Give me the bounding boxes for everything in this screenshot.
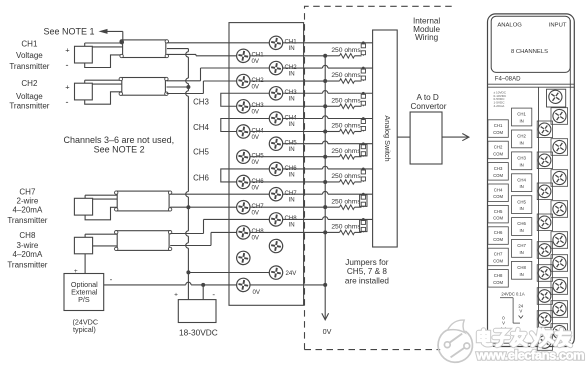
svg-text:IN: IN xyxy=(289,171,295,178)
label box: CH6 COM xyxy=(488,227,508,245)
svg-text:CH4: CH4 xyxy=(517,177,526,182)
svg-text:0V: 0V xyxy=(252,235,260,242)
svg-text:0V: 0V xyxy=(323,327,332,336)
watermark chinese characters 电子发烧友 (stylized) xyxy=(479,330,492,345)
junction: CH3 0V / 0V bus xyxy=(323,104,327,108)
junction: CH1 shield to NOTE1 wire xyxy=(120,40,124,44)
svg-text:IN: IN xyxy=(289,121,295,128)
resistor R5 250 ohms xyxy=(325,156,339,158)
module terminal screw L2 xyxy=(537,152,552,169)
wire: CH3 IN line to analog switch xyxy=(283,92,323,94)
transmitter CH7 (box) xyxy=(74,198,92,215)
wire: CH8 IN line to analog switch xyxy=(283,218,323,220)
svg-text:CH8: CH8 xyxy=(19,231,36,240)
svg-text:250 ohms: 250 ohms xyxy=(331,173,361,180)
wire: CH8 mid lead xyxy=(93,245,118,247)
svg-text:CH3: CH3 xyxy=(517,156,526,161)
svg-text:IN: IN xyxy=(519,119,523,124)
wire: battery + up to 24V line xyxy=(187,272,189,299)
terminal 24V xyxy=(268,265,284,281)
svg-text:CH6: CH6 xyxy=(494,230,503,235)
svg-text:4-20mA: 4-20mA xyxy=(494,104,506,108)
module terminal screw R6 xyxy=(551,255,568,272)
svg-text:V: V xyxy=(519,309,522,314)
label box: CH7 IN xyxy=(512,240,532,258)
wire: CH2 IN line to analog switch xyxy=(283,67,323,69)
shielded cable CH2 xyxy=(122,78,166,96)
label box: CH8 IN xyxy=(512,261,532,279)
wire: CH4 0V line to bus xyxy=(250,130,325,132)
junction: CH5 0V / 0V bus xyxy=(323,155,327,159)
svg-text:COM: COM xyxy=(493,280,503,285)
module terminal screw R1 xyxy=(551,108,568,125)
svg-text:COM: COM xyxy=(493,194,503,199)
label box: CH6 IN xyxy=(512,218,532,236)
wire: CH7 + lead (double line) xyxy=(84,195,86,198)
svg-text:IN: IN xyxy=(519,228,523,233)
svg-text:CH3: CH3 xyxy=(494,166,503,171)
wire: CH1 + lead (double line) xyxy=(84,43,86,46)
wire: CH2 0V to terminal xyxy=(167,93,204,95)
terminal CH6 0V xyxy=(236,174,252,190)
svg-text:2-wire: 2-wire xyxy=(17,197,39,206)
svg-text:IN: IN xyxy=(289,96,295,103)
svg-text:CH2: CH2 xyxy=(21,79,38,88)
svg-text:CH7: CH7 xyxy=(494,252,503,257)
svg-text:Channels 3–6 are not used,: Channels 3–6 are not used, xyxy=(64,135,175,145)
module 24V / 0V bracket xyxy=(500,297,513,299)
label box: CH4 COM xyxy=(488,184,508,202)
wire: CH1 0V to terminal xyxy=(167,53,196,55)
label box: CH7 COM xyxy=(488,248,508,266)
terminal 0V (supply) xyxy=(236,277,252,293)
resistor R4 250 ohms xyxy=(325,130,339,132)
svg-text:0V: 0V xyxy=(252,159,260,166)
svg-text:CH2: CH2 xyxy=(494,145,503,150)
wire: CH7 IN to terminal xyxy=(170,193,269,195)
junction: 0V supply / bus xyxy=(323,283,327,287)
svg-text:Transmitter: Transmitter xyxy=(7,261,47,270)
svg-text:8 CHANNELS: 8 CHANNELS xyxy=(511,49,548,55)
junction: jumper stub CH2 xyxy=(362,67,365,70)
wire: CH7 0V line to bus xyxy=(250,206,325,208)
wire: CH6 0V line to bus xyxy=(250,181,325,183)
svg-text:IN: IN xyxy=(519,206,523,211)
svg-text:Transmitter: Transmitter xyxy=(9,62,49,71)
svg-text:CH1: CH1 xyxy=(21,40,38,49)
wire: CH1 IN line to analog switch xyxy=(283,42,373,44)
label box: CH3 COM xyxy=(488,163,508,181)
svg-text:CH1: CH1 xyxy=(494,123,503,128)
resistor R7 250 ohms xyxy=(325,206,339,208)
svg-text:typical): typical) xyxy=(73,325,96,334)
module terminal screw L4 xyxy=(537,214,552,231)
svg-text:CH4: CH4 xyxy=(494,187,503,192)
wire: CH5 0V line to bus xyxy=(250,156,325,158)
battery 18-30VDC xyxy=(178,300,216,323)
svg-text:4–20mA: 4–20mA xyxy=(13,205,43,214)
jumper posts CH4 xyxy=(361,120,365,124)
wire: CH2 - lead staircase xyxy=(85,92,122,104)
module header box xyxy=(491,16,570,72)
svg-text:See NOTE 2: See NOTE 2 xyxy=(94,145,145,155)
terminal CH3 0V xyxy=(236,98,252,114)
junction: CH7 0V / 0V bus xyxy=(323,205,327,209)
wire: NOTE 1 arrow to CH1 cable shield xyxy=(99,29,108,34)
A to D convertor U2 (box) xyxy=(410,112,442,164)
wire: CH8 + lead xyxy=(84,234,86,237)
jumper posts CH6 xyxy=(361,170,365,174)
module face F4-08AD outline xyxy=(488,14,575,347)
svg-text:CH8: CH8 xyxy=(517,265,526,270)
svg-text:0V: 0V xyxy=(252,83,260,90)
junction: CH6 0V / 0V bus xyxy=(323,180,327,184)
wire: battery - up to 0V line xyxy=(202,285,204,300)
svg-text:COM: COM xyxy=(493,151,503,156)
wire: 0V bus arrow down xyxy=(324,285,326,320)
label box: CH8 COM xyxy=(488,270,508,288)
module terminal screw R4 xyxy=(551,201,568,218)
svg-text:CH7: CH7 xyxy=(19,187,36,196)
junction: jumper stub CH5 xyxy=(362,142,365,145)
svg-text:INPUT: INPUT xyxy=(549,23,567,29)
svg-text:0V: 0V xyxy=(252,58,260,65)
wire: CH8 0V to terminal xyxy=(170,245,211,247)
module terminal screw L9 xyxy=(537,334,552,351)
svg-text:www.elecfans.com: www.elecfans.com xyxy=(476,348,585,363)
module terminal screw R9 xyxy=(551,324,568,341)
shielded cable CH1 xyxy=(123,40,166,58)
svg-text:CH8: CH8 xyxy=(494,273,503,278)
module terminal screw R2 xyxy=(551,139,568,156)
svg-text:CH1: CH1 xyxy=(517,112,526,117)
label box: CH1 IN xyxy=(512,108,532,126)
module inner edge lines xyxy=(569,20,571,341)
wire: CH2 IN to terminal xyxy=(167,80,201,82)
wire: CH4 shorting bracket IN to 0V xyxy=(221,118,269,131)
svg-text:See NOTE 1: See NOTE 1 xyxy=(43,26,94,36)
module terminal screw R8 xyxy=(551,301,568,318)
svg-text:24V: 24V xyxy=(286,270,298,277)
svg-text:CH2: CH2 xyxy=(517,134,526,139)
svg-text:0V: 0V xyxy=(252,134,260,141)
svg-text:250 ohms: 250 ohms xyxy=(331,123,361,130)
wire: P/S 0V output to 0V terminal xyxy=(104,284,186,286)
terminal CH7 0V xyxy=(236,199,252,215)
junction: CH4 0V / 0V bus xyxy=(323,129,327,133)
svg-text:+: + xyxy=(74,268,78,275)
svg-text:F4–08AD: F4–08AD xyxy=(495,75,521,82)
module terminal screw L8 xyxy=(537,311,552,328)
svg-text:+: + xyxy=(174,291,178,298)
junction: CH7 0V / bus xyxy=(186,205,190,209)
module screw strip xyxy=(538,87,540,341)
svg-text:CH5: CH5 xyxy=(494,209,503,214)
svg-text:IN: IN xyxy=(289,196,295,203)
module terminal screw L5 xyxy=(537,242,552,259)
wire: internal 0V bus xyxy=(324,56,326,285)
terminal CH5 IN xyxy=(268,136,284,152)
resistor R8 250 ohms xyxy=(325,231,339,233)
svg-text:COM: COM xyxy=(493,216,503,221)
svg-text:24VDC 0.1A: 24VDC 0.1A xyxy=(501,291,524,296)
svg-text:0V: 0V xyxy=(252,109,260,116)
terminal CH2 IN xyxy=(268,60,284,76)
junction: battery - wire / 0V line xyxy=(201,283,205,287)
power supply: Optional External P/S xyxy=(64,274,104,311)
svg-text:3-wire: 3-wire xyxy=(17,241,39,250)
resistor R1 250 ohms xyxy=(325,55,339,57)
transmitter CH1 (box) xyxy=(75,46,93,63)
label box: CH4 IN xyxy=(512,174,532,192)
svg-text:-: - xyxy=(110,275,113,284)
module terminal screw L3 xyxy=(537,183,552,200)
svg-text:0V: 0V xyxy=(252,184,260,191)
label box: CH5 COM xyxy=(488,205,508,223)
analog switch U1 xyxy=(373,30,398,247)
module top screw xyxy=(547,89,566,107)
wire: analog switch to A/D xyxy=(397,136,410,138)
wire: CH8 supply lead down to P/S xyxy=(84,254,86,274)
svg-text:IN: IN xyxy=(289,70,295,77)
wire: CH7 0V to terminal xyxy=(170,206,236,208)
svg-text:ANALOG: ANALOG xyxy=(497,23,522,29)
svg-text:IN: IN xyxy=(519,272,523,277)
junction: jumper stub CH3 xyxy=(362,92,365,95)
terminal CH1 0V xyxy=(236,48,252,64)
svg-text:CH6: CH6 xyxy=(517,221,526,226)
wire: CH8 0V line to bus xyxy=(250,231,325,233)
junction: jumper stub CH6 xyxy=(362,168,365,171)
junction: CH2 0V / 0V bus xyxy=(323,79,327,83)
svg-text:COM: COM xyxy=(493,258,503,263)
svg-text:IN: IN xyxy=(289,222,295,229)
wire: CH1 IN to terminal xyxy=(167,42,269,44)
junction: battery + / 24V line xyxy=(186,270,190,274)
junction: jumper stub CH1 xyxy=(362,41,365,44)
junction: CH1 0V / 0V bus xyxy=(323,54,327,58)
svg-text:IN: IN xyxy=(519,250,523,255)
svg-text:250 ohms: 250 ohms xyxy=(331,148,361,155)
jumper posts CH5 (installed) xyxy=(360,144,367,156)
junction: jumper stub CH4 xyxy=(362,117,365,120)
dashed box: internal module wiring boundary xyxy=(305,6,471,349)
transmitter CH2 (box) xyxy=(75,83,93,100)
svg-text:18-30VDC: 18-30VDC xyxy=(179,327,218,337)
wire: 0V terminal line to bus xyxy=(250,284,325,286)
svg-text:IN: IN xyxy=(289,45,295,52)
wire: A/D output arrow xyxy=(442,136,469,138)
svg-text:IN: IN xyxy=(519,162,523,167)
label box: CH2 IN xyxy=(512,130,532,148)
label box: CH2 COM xyxy=(488,141,508,159)
terminal spare (right column) xyxy=(268,238,284,254)
terminal CH8 0V xyxy=(236,225,252,241)
junction: CH2 drain / bus xyxy=(186,85,190,89)
svg-text:-: - xyxy=(212,290,215,299)
svg-text:CH5: CH5 xyxy=(193,148,209,157)
shielded cable CH8 xyxy=(117,231,169,251)
wire: 24V line to 24V terminal xyxy=(188,272,269,274)
module divider lines xyxy=(488,83,575,85)
wire: left 24V return bus xyxy=(187,49,189,52)
module terminal screw L6 xyxy=(537,265,552,282)
wire: CH7 - lead staircase xyxy=(85,207,117,220)
terminal strip outline xyxy=(229,23,304,306)
terminal CH1 IN xyxy=(268,35,284,51)
wire: CH1 0V line to bus xyxy=(250,55,325,57)
junction: CH8 0V / 0V bus xyxy=(323,230,327,234)
svg-text:Transmitter: Transmitter xyxy=(9,102,49,111)
svg-text:Convertor: Convertor xyxy=(411,102,447,111)
wire: CH8 IN to terminal xyxy=(170,233,203,235)
svg-text:are installed: are installed xyxy=(345,276,390,285)
jumper posts CH1 xyxy=(361,44,365,48)
wire: CH3 shorting bracket IN to 0V xyxy=(221,93,269,106)
svg-text:250 ohms: 250 ohms xyxy=(331,72,361,79)
svg-text:0V: 0V xyxy=(252,209,260,216)
resistor R6 250 ohms xyxy=(325,181,339,183)
module terminal screw L7 xyxy=(537,288,552,305)
resistor R3 250 ohms xyxy=(325,105,339,107)
jumper posts CH7 (installed) xyxy=(360,195,367,207)
wire: CH6 IN line to analog switch xyxy=(283,168,323,170)
terminal CH2 0V xyxy=(236,73,252,89)
svg-text:V: V xyxy=(502,321,505,326)
jumper posts CH2 xyxy=(361,69,365,73)
wire: CH2 + lead (double line) xyxy=(84,80,86,83)
svg-text:A to D: A to D xyxy=(417,93,439,102)
jumper posts CH3 xyxy=(361,94,365,98)
terminal CH3 IN xyxy=(268,85,284,101)
label box: CH3 IN xyxy=(512,152,532,170)
svg-text:CH7: CH7 xyxy=(517,243,526,248)
resistor R2 250 ohms xyxy=(325,80,339,82)
svg-text:250 ohms: 250 ohms xyxy=(331,97,361,104)
wire: CH1 - lead staircase xyxy=(85,55,123,68)
terminal CH5 0V xyxy=(236,149,252,165)
terminal CH4 0V xyxy=(236,124,252,140)
jumper posts CH8 (installed) xyxy=(360,220,367,232)
svg-text:-: - xyxy=(66,97,69,107)
wire: CH6 shorting bracket IN to 0V xyxy=(221,169,269,182)
svg-text:COM: COM xyxy=(493,173,503,178)
svg-text:Voltage: Voltage xyxy=(16,92,43,101)
svg-text:IN: IN xyxy=(519,140,523,145)
svg-text:IN: IN xyxy=(519,184,523,189)
shielded cable CH7 xyxy=(117,191,169,211)
module terminal screw R7 xyxy=(551,278,568,295)
svg-text:CH3: CH3 xyxy=(193,98,209,107)
wire: CH1 shield drain to bus xyxy=(167,48,189,50)
svg-text:Voltage: Voltage xyxy=(16,51,43,60)
svg-text:4–20mA: 4–20mA xyxy=(13,250,43,259)
watermark logo circle (elecfans) xyxy=(438,320,475,364)
wire: CH2 shield drain to bus xyxy=(167,86,189,88)
wire: CH4 IN line to analog switch xyxy=(283,117,323,119)
svg-text:250 ohms: 250 ohms xyxy=(331,47,361,54)
svg-text:+: + xyxy=(65,46,70,55)
svg-text:Jumpers for: Jumpers for xyxy=(345,258,388,267)
svg-text:Wiring: Wiring xyxy=(415,33,439,42)
label box: CH1 COM xyxy=(488,120,508,138)
svg-text:CH5: CH5 xyxy=(517,199,526,204)
transmitter CH8 (box) xyxy=(74,237,92,254)
module terminal screw R5 xyxy=(551,232,568,249)
terminal CH6 IN xyxy=(268,161,284,177)
terminal spare (left column) xyxy=(236,250,252,266)
svg-text:COM: COM xyxy=(493,237,503,242)
wire: CH7 IN line to analog switch xyxy=(283,193,323,195)
junction: jumper stub CH7 xyxy=(362,193,365,196)
terminal CH4 IN xyxy=(268,111,284,127)
module terminal screw L1 xyxy=(537,121,552,138)
wire: CH2 0V line to bus xyxy=(250,80,325,82)
svg-text:CH4: CH4 xyxy=(193,123,209,132)
svg-text:0V: 0V xyxy=(253,289,261,296)
module terminal screw R3 xyxy=(551,170,568,187)
svg-text:CH5, 7 & 8: CH5, 7 & 8 xyxy=(347,267,387,276)
junction: jumper stub CH8 xyxy=(362,218,365,221)
svg-text:+: + xyxy=(65,83,70,92)
svg-text:COM: COM xyxy=(493,130,503,135)
label box: CH5 IN xyxy=(512,196,532,214)
wire: CH3 0V line to bus xyxy=(250,105,325,107)
svg-text:Analog Switch: Analog Switch xyxy=(383,115,392,161)
svg-text:Transmitter: Transmitter xyxy=(7,216,47,225)
terminal CH8 IN xyxy=(268,212,284,228)
svg-text:250 ohms: 250 ohms xyxy=(331,198,361,205)
terminal CH7 IN xyxy=(268,186,284,202)
wire: CH5 IN line to analog switch xyxy=(283,143,323,145)
svg-text:250 ohms: 250 ohms xyxy=(331,224,361,231)
svg-text:-: - xyxy=(66,60,69,70)
svg-text:P/S: P/S xyxy=(78,295,90,304)
svg-text:IN: IN xyxy=(289,146,295,153)
svg-text:CH6: CH6 xyxy=(193,173,209,182)
